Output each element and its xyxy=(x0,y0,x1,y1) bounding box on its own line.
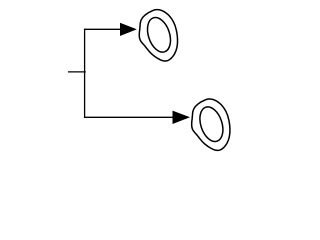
wire: left input stub xyxy=(68,71,86,73)
wire: top branch xyxy=(84,28,122,30)
node: top torus ring inner xyxy=(143,14,174,55)
arrowhead: bottom branch xyxy=(173,111,191,124)
node: bottom torus ring outer xyxy=(192,99,230,150)
node: bottom torus ring inner xyxy=(196,104,227,145)
wire: bottom branch xyxy=(84,116,174,118)
wire: vertical bus xyxy=(84,29,86,118)
arrowhead: top branch xyxy=(120,23,137,36)
node: top torus ring outer xyxy=(139,10,177,61)
